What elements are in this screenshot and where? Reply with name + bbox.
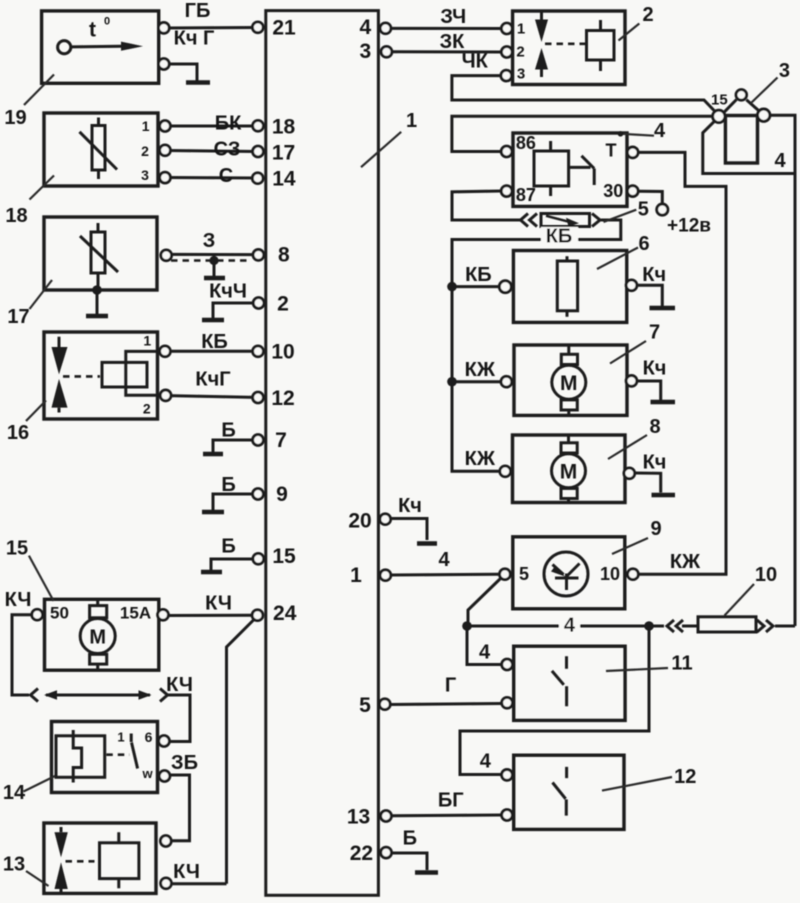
svg-text:1: 1 xyxy=(517,21,525,38)
svg-text:КЧ: КЧ xyxy=(205,593,232,615)
svg-text:7: 7 xyxy=(649,322,660,344)
svg-text:7: 7 xyxy=(275,429,287,452)
svg-text:1: 1 xyxy=(117,730,124,745)
svg-text:86: 86 xyxy=(516,133,536,153)
svg-text:T: T xyxy=(606,141,617,161)
svg-text:w: w xyxy=(141,766,153,781)
svg-text:ЧК: ЧК xyxy=(462,51,489,73)
svg-text:9: 9 xyxy=(650,518,661,540)
svg-text:4: 4 xyxy=(438,549,450,571)
svg-text:10: 10 xyxy=(600,564,620,584)
svg-text:КЖ: КЖ xyxy=(465,448,496,470)
svg-text:КБ: КБ xyxy=(546,225,573,247)
svg-text:3: 3 xyxy=(141,167,149,183)
svg-text:6: 6 xyxy=(145,729,153,745)
svg-text:14: 14 xyxy=(3,782,26,804)
svg-text:3: 3 xyxy=(779,60,790,82)
svg-text:0: 0 xyxy=(104,15,110,27)
svg-text:Б: Б xyxy=(221,536,235,558)
svg-text:1: 1 xyxy=(142,118,150,134)
svg-text:8: 8 xyxy=(278,244,290,267)
svg-text:2: 2 xyxy=(516,44,524,61)
svg-text:15А: 15А xyxy=(120,604,151,623)
svg-text:4: 4 xyxy=(654,120,666,142)
svg-text:1: 1 xyxy=(406,110,417,132)
svg-text:М: М xyxy=(89,627,106,649)
svg-text:5: 5 xyxy=(638,199,649,221)
svg-text:9: 9 xyxy=(276,483,288,506)
svg-text:11: 11 xyxy=(671,653,692,675)
svg-text:КБ: КБ xyxy=(465,264,492,286)
svg-text:13: 13 xyxy=(347,806,370,829)
svg-text:Б: Б xyxy=(221,474,235,496)
svg-text:15: 15 xyxy=(272,545,296,568)
svg-text:2: 2 xyxy=(143,401,151,417)
svg-text:КЧ: КЧ xyxy=(173,861,200,883)
svg-text:Б: Б xyxy=(403,828,417,850)
svg-text:2: 2 xyxy=(642,4,653,26)
svg-text:15: 15 xyxy=(711,92,728,109)
svg-text:Кч: Кч xyxy=(643,358,667,380)
svg-text:5: 5 xyxy=(519,564,529,584)
svg-text:17: 17 xyxy=(7,306,29,328)
svg-text:З: З xyxy=(203,230,216,252)
svg-text:М: М xyxy=(560,461,578,484)
svg-text:ГБ: ГБ xyxy=(185,0,211,22)
svg-text:БК: БК xyxy=(215,113,242,135)
svg-text:4: 4 xyxy=(479,642,491,664)
svg-text:24: 24 xyxy=(273,602,297,625)
svg-text:87: 87 xyxy=(516,185,536,205)
svg-text:Кч: Кч xyxy=(643,452,667,474)
svg-text:КЧ: КЧ xyxy=(166,674,193,696)
svg-text:КЖ: КЖ xyxy=(465,359,496,381)
svg-text:21: 21 xyxy=(272,17,296,40)
svg-text:t: t xyxy=(89,19,96,42)
svg-text:18: 18 xyxy=(272,115,296,138)
svg-text:10: 10 xyxy=(755,564,777,586)
svg-text:+12в: +12в xyxy=(667,216,711,237)
svg-text:Кч: Кч xyxy=(398,495,422,517)
svg-text:4: 4 xyxy=(564,615,576,637)
svg-text:10: 10 xyxy=(271,340,294,363)
svg-text:5: 5 xyxy=(359,694,371,717)
svg-text:4: 4 xyxy=(480,751,492,773)
svg-text:2: 2 xyxy=(277,293,289,316)
svg-text:20: 20 xyxy=(348,510,371,533)
svg-text:18: 18 xyxy=(5,205,27,227)
svg-text:КчГ: КчГ xyxy=(195,369,230,391)
svg-text:Кч: Кч xyxy=(642,264,666,286)
svg-text:8: 8 xyxy=(649,416,660,438)
svg-text:3: 3 xyxy=(359,40,371,63)
svg-text:19: 19 xyxy=(4,107,26,129)
svg-text:С: С xyxy=(219,165,233,187)
svg-text:КЧ: КЧ xyxy=(5,589,32,611)
svg-text:17: 17 xyxy=(272,141,295,164)
svg-text:12: 12 xyxy=(674,766,696,788)
svg-text:16: 16 xyxy=(7,422,29,444)
svg-text:15: 15 xyxy=(6,538,28,560)
svg-text:КБ: КБ xyxy=(201,331,228,353)
svg-text:ЗЧ: ЗЧ xyxy=(440,6,466,28)
svg-text:22: 22 xyxy=(350,842,373,865)
svg-text:4: 4 xyxy=(774,150,786,172)
svg-text:1: 1 xyxy=(350,564,362,587)
svg-text:12: 12 xyxy=(271,387,294,410)
svg-text:4: 4 xyxy=(359,16,371,39)
svg-text:Г: Г xyxy=(445,674,456,696)
svg-text:13: 13 xyxy=(3,854,25,876)
svg-text:ЗБ: ЗБ xyxy=(171,752,198,774)
svg-text:БГ: БГ xyxy=(438,790,464,812)
svg-text:СЗ: СЗ xyxy=(214,139,241,161)
svg-text:КчЧ: КчЧ xyxy=(209,281,247,303)
svg-text:Б: Б xyxy=(221,420,235,442)
svg-text:6: 6 xyxy=(638,233,649,255)
svg-text:2: 2 xyxy=(141,143,149,159)
svg-text:КЖ: КЖ xyxy=(670,551,701,573)
svg-text:Кч Г: Кч Г xyxy=(174,27,215,49)
svg-text:14: 14 xyxy=(272,167,296,190)
svg-text:3: 3 xyxy=(517,66,525,83)
svg-text:М: М xyxy=(560,372,578,395)
svg-text:30: 30 xyxy=(603,181,623,201)
svg-text:50: 50 xyxy=(50,604,69,623)
svg-text:1: 1 xyxy=(143,333,151,349)
